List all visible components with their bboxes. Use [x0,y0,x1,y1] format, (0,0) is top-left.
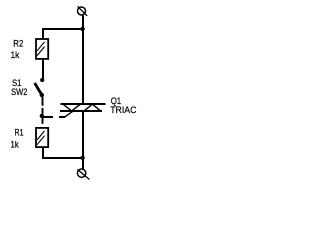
wire top stub [82,16,84,31]
wire bottom stub [82,157,84,169]
svg-text:R1: R1 [15,128,24,139]
switch S1 bottom contact [40,93,44,97]
triac Q1 left triangle left edge [63,104,73,112]
wire gate horizontal (segment 2) [59,116,65,118]
svg-text:SW2: SW2 [11,87,27,98]
wire R1 to bottom rail [42,147,44,159]
terminal T1 (top) [78,6,88,16]
node top junction [80,27,84,31]
wire switch to gate node (segment 2) [42,108,44,114]
switch S1 lever [35,83,42,95]
wire switch to gate node (segment 1) [42,96,44,106]
resistor R2 [36,39,48,59]
wire gate node to R1 [42,118,44,124]
node bottom junction [80,156,84,160]
wire main vertical MT1 [82,111,84,158]
wire main vertical MT2 [82,28,84,104]
triac Q1 left triangle right edge [71,104,80,111]
triac Q1 right triangle right edge [92,104,101,111]
wire R2 to switch [42,59,44,78]
wire gate diagonal [65,110,75,117]
terminal T2 (bottom) [77,169,89,179]
wire top horizontal [42,28,84,30]
switch S1 top contact [40,78,44,82]
triac Q1 top rail [61,103,106,105]
node gate junction [40,114,44,118]
wire down to R2 [42,28,44,39]
triac Q1 bottom rail [60,110,102,112]
resistor R1 [36,128,48,147]
wire bottom horizontal [42,157,84,159]
svg-text:TRIAC: TRIAC [110,105,136,116]
svg-text:R2: R2 [13,38,23,49]
svg-text:1k: 1k [11,139,19,150]
wire gate horizontal (segment 1) [42,116,53,118]
svg-text:1k: 1k [11,50,20,61]
triac Q1 right triangle left edge [84,104,93,111]
